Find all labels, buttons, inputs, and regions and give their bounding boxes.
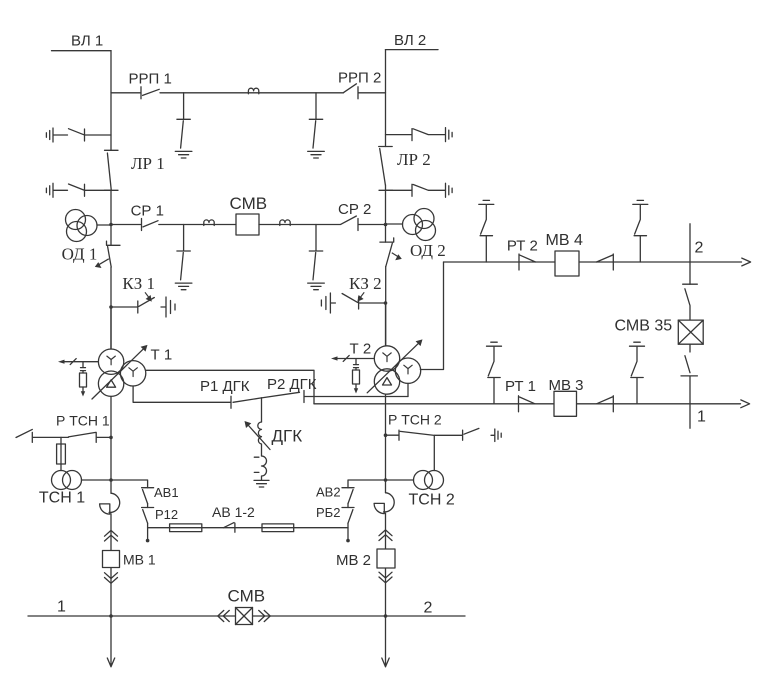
wire: feeder 1 horizontal line	[314, 403, 741, 405]
wire: bus 1 outgoing below bottom bus	[107, 616, 114, 667]
node: ДГК line centre tap	[261, 398, 263, 422]
breaker МВ 1 box	[103, 551, 120, 568]
node: АВ1 chain end	[146, 539, 150, 543]
wire: СМВ 35 chain vertical (section tie 35kV)	[689, 224, 691, 284]
disconnector ЛР 2	[379, 147, 393, 191]
wire: СР line left	[159, 224, 236, 226]
earthing switch on bus 1 lower (left)	[46, 183, 111, 197]
svg-text:Т 1: Т 1	[151, 347, 173, 364]
earthing switch with top ground on feeder 1 (right)	[630, 342, 645, 404]
svg-text:ДГК: ДГК	[272, 427, 303, 446]
resistor on АВ 1-2 tie (left)	[170, 524, 202, 532]
earthing switch on bus 2 lower (right)	[386, 183, 453, 197]
svg-text:МВ 4: МВ 4	[546, 232, 583, 249]
arrow: feeder 2 end	[742, 258, 751, 266]
svg-text:Р12: Р12	[155, 507, 178, 522]
wire: bus 2 top section	[385, 50, 387, 147]
coupling coil on СР line (left)	[204, 220, 214, 226]
svg-text:1: 1	[57, 599, 66, 616]
arc suppression coil ДГК	[245, 421, 271, 487]
wire: АВ2 chain lower stub with node	[347, 504, 349, 541]
svg-text:СМВ 35: СМВ 35	[615, 318, 673, 335]
node: ТСН 1 junction on bus 1	[109, 478, 113, 482]
svg-text:АВ1: АВ1	[154, 485, 179, 500]
chevrons below МВ 2	[379, 572, 392, 583]
svg-text:1: 1	[697, 409, 706, 426]
earthing switch hanging on СР line (right)	[308, 225, 325, 290]
breaker СМВ 35 box with X	[678, 320, 703, 344]
wire: ДГК line up to T2 neutral	[407, 383, 409, 396]
arrow annotation of ОД 1	[95, 259, 109, 268]
svg-text:МВ 1: МВ 1	[123, 552, 156, 568]
wire: АВ 1-2 tie line	[148, 527, 348, 529]
svg-text:Р1 ДГК: Р1 ДГК	[200, 378, 250, 395]
disconnector Р2 ДГК	[262, 391, 409, 403]
current transformer on bus 1	[100, 493, 120, 514]
disconnector Р ТСН 1 with fuse	[16, 429, 111, 470]
chevrons right of bottom СМВ	[259, 610, 271, 621]
arrow annotation of КЗ 1	[145, 292, 152, 301]
chevrons above МВ 2	[379, 530, 392, 541]
disconnector after МВ 3	[597, 396, 614, 412]
disconnector Р ТСН 2 with earthing switch	[386, 428, 502, 470]
svg-text:ЛР 1: ЛР 1	[131, 154, 165, 173]
earthing switch hanging on СР line (left)	[175, 225, 192, 290]
svg-text:МВ 2: МВ 2	[336, 552, 371, 569]
earthing switch hanging on РРП line (left)	[175, 93, 192, 158]
wire: branch from bus 1 to АВ1 chain	[111, 480, 148, 488]
earthing switch on bus 2 upper (right)	[386, 128, 453, 142]
wire: bus 2 from ЛР2 to ОД2 bar	[385, 185, 387, 242]
svg-text:2: 2	[695, 240, 704, 257]
disconnector Р1 ДГК	[231, 396, 261, 408]
breaker МВ 2 box	[377, 549, 395, 568]
earthing switch hanging on РРП line (right)	[308, 93, 325, 158]
switch РБ2	[342, 508, 354, 524]
svg-text:ОД 2: ОД 2	[410, 241, 446, 260]
svg-text:Т 2: Т 2	[350, 341, 372, 358]
svg-text:МВ 3: МВ 3	[549, 377, 584, 394]
svg-text:РТ 1: РТ 1	[505, 378, 536, 395]
disconnector СР 2	[341, 216, 386, 231]
svg-text:Р ТСН 2: Р ТСН 2	[388, 412, 442, 428]
short-circuiter КЗ 1	[111, 297, 175, 317]
wire: АВ1 chain lower stub with node	[147, 504, 149, 541]
wire: bus 2 from ОД2 to T2	[385, 267, 387, 346]
wire: bus 1 from ЛР1 to ОД1 bar	[110, 190, 112, 245]
wire: bus 2 into T2 and below T2	[385, 303, 387, 435]
node: КЗ2 junction on bus 2	[384, 301, 388, 305]
surge arrester assembly left of T2	[331, 355, 374, 393]
wire: bus 1 top section from ВЛ1 to ЛР1	[110, 51, 112, 151]
chevrons above МВ 1	[105, 530, 118, 541]
disconnector below СМВ 35	[681, 344, 697, 404]
chevrons below МВ 1	[105, 573, 118, 584]
disconnector РТ 2	[519, 254, 536, 270]
switch АВ2	[342, 488, 354, 504]
wire: feeder 2 corner down to T2 35kV winding	[420, 262, 443, 370]
arrow annotation of КЗ 2	[357, 292, 364, 301]
breaker МВ 4 box	[555, 251, 579, 276]
svg-text:ВЛ 2: ВЛ 2	[394, 32, 426, 49]
node: СР2/ОД2 junction on bus 2	[384, 223, 388, 227]
disconnector after МВ 4	[597, 254, 614, 270]
chevrons left of bottom СМВ	[218, 610, 230, 621]
transformer T2 three-winding	[367, 339, 422, 394]
disconnector ЛР 1	[105, 150, 119, 190]
node: СР1/ОД1 junction on bus 1	[109, 223, 113, 227]
svg-text:ВЛ 1: ВЛ 1	[71, 33, 103, 50]
svg-text:ЛР 2: ЛР 2	[397, 150, 431, 169]
wire: T1 35kV output to feeder 1 corner	[146, 370, 315, 404]
breaker СМВ (bottom section tie) box with X	[236, 608, 253, 625]
transformer ОД 1 winding cluster	[66, 210, 112, 242]
transformer ОД 2 winding cluster	[386, 209, 436, 241]
svg-text:СР 1: СР 1	[131, 203, 164, 220]
svg-text:СМВ: СМВ	[228, 587, 266, 606]
surge arrester assembly left of T1	[58, 359, 98, 397]
node: bus 2 to bottom bus	[384, 614, 388, 618]
earthing switch with top ground on feeder 1 (left)	[487, 342, 502, 404]
disconnector РРП 1	[111, 87, 159, 99]
earthing switch with top ground on feeder 2 (right)	[633, 200, 648, 262]
svg-text:КЗ 2: КЗ 2	[349, 274, 382, 293]
disconnector РРП 2	[344, 84, 386, 99]
wire: bottom bus section 1-2	[28, 615, 465, 617]
transformer ТСН 1 two-winding	[52, 471, 112, 490]
svg-text:ОД 1: ОД 1	[62, 245, 98, 264]
svg-text:СР 2: СР 2	[338, 201, 371, 218]
svg-text:КЗ 1: КЗ 1	[122, 274, 155, 293]
wire: ВЛ 2 incoming lead	[386, 49, 439, 51]
node: Р ТСН 1 junction on bus 1	[109, 436, 113, 440]
svg-text:АВ2: АВ2	[316, 485, 341, 500]
svg-text:РТ 2: РТ 2	[507, 238, 538, 255]
earthing switch with top ground on feeder 2 (left)	[479, 200, 494, 262]
wire: branch from bus 2 to АВ2 chain	[348, 480, 386, 488]
wire: ВЛ 1 incoming lead	[52, 50, 112, 52]
separator ОД 1 (blade with bar)	[107, 241, 121, 267]
wire: РРП line left part	[160, 92, 344, 94]
disconnector above СМВ 35	[683, 284, 698, 320]
arrow: feeder 1 end	[741, 400, 750, 408]
wire: СР line right	[259, 224, 341, 226]
arrow annotation of ОД 2	[392, 253, 402, 261]
svg-text:Р2 ДГК: Р2 ДГК	[267, 376, 317, 393]
svg-text:Р ТСН 1: Р ТСН 1	[56, 413, 110, 429]
breaker МВ 3 box	[554, 391, 577, 416]
node: bus 1 to bottom bus	[109, 614, 113, 618]
resistor on АВ 1-2 tie (right)	[262, 524, 294, 532]
earthing switch on bus 1 upper (left)	[46, 128, 111, 142]
wire: bus 2 from T2 down through МВ2 to bottom bus	[385, 435, 387, 616]
svg-text:СМВ: СМВ	[230, 194, 268, 213]
coupling coil on РРП line	[248, 88, 258, 94]
coupling coil on СР line (right)	[280, 220, 290, 226]
node: АВ2 chain end	[346, 539, 350, 543]
svg-text:РБ2: РБ2	[316, 505, 340, 520]
wire: T1 neutral tap down to ДГК line	[133, 386, 231, 402]
disconnector СР 1	[111, 219, 158, 231]
wire: feeder 2 horizontal line	[444, 261, 742, 263]
wire: bus 1 from T1 down through МВ1 to bottom bus	[110, 437, 112, 616]
transformer ТСН 2 two-winding	[386, 471, 444, 490]
svg-text:РРП 1: РРП 1	[129, 71, 172, 88]
wire: bus 2 outgoing below bottom bus	[382, 616, 389, 667]
node: ТСН 2 junction on bus 2	[384, 478, 388, 482]
wire: bus 1 into T1 and below T1	[110, 307, 112, 437]
switch АВ 1-2	[224, 523, 235, 533]
svg-text:ТСН 1: ТСН 1	[39, 490, 85, 507]
disconnector РТ 1	[519, 396, 536, 412]
node: Р ТСН 2 junction on bus 2	[384, 433, 388, 437]
svg-text:РРП 2: РРП 2	[338, 70, 381, 87]
breaker СМВ (bus coupler 110kV) box	[236, 214, 259, 235]
switch АВ1	[142, 488, 154, 504]
wire: СМВ 35 chain tail below feeder 1	[689, 404, 691, 428]
node: КЗ1 junction on bus 1	[109, 305, 113, 309]
switch Р12	[142, 508, 154, 524]
short-circuiter КЗ 2	[321, 293, 385, 313]
transformer T1 three-winding	[92, 345, 148, 399]
separator ОД 2 (blade with bar)	[380, 238, 394, 267]
wire: bus 1 from ОД1 to T1	[110, 267, 112, 349]
svg-text:2: 2	[424, 600, 433, 617]
current transformer on bus 2	[374, 493, 394, 514]
svg-text:АВ 1-2: АВ 1-2	[212, 504, 255, 520]
svg-text:ТСН 2: ТСН 2	[409, 492, 455, 509]
